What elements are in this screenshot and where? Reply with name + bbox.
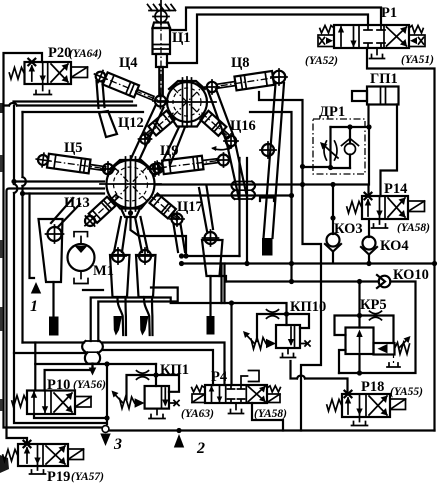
link from C4 pivot down to arm lever bbox=[97, 81, 105, 108]
svg-text:P19: P19 bbox=[47, 469, 70, 483]
C9 anchor pivot bbox=[152, 162, 163, 173]
P19 right box crossed arrows bbox=[46, 446, 65, 464]
wire P1 top wire W2 bbox=[167, 15, 368, 64]
swivel stem with flow arrow bbox=[91, 364, 93, 371]
lower head vertical lines bbox=[126, 156, 136, 212]
P10 right box crossed arrows bbox=[54, 393, 72, 412]
wire P4 riser x=231.5 with KP10 feed bbox=[230, 303, 232, 385]
P1 right box crossed arrows bbox=[387, 27, 407, 46]
KP1 internal down arrow bbox=[164, 388, 166, 405]
wire swivel riser A to KP10/P4 feed bbox=[91, 298, 232, 342]
left leg stem bbox=[52, 282, 54, 317]
P10 left box flow arrows bbox=[34, 392, 45, 413]
P14 right box crossed arrows bbox=[388, 198, 405, 217]
node (302.5,184.5) bbox=[300, 182, 305, 187]
C5 rod bbox=[89, 164, 105, 170]
KR5 spring bbox=[395, 343, 410, 355]
P19 blocked port X bbox=[24, 441, 31, 448]
rail y=184.5 (swivel to KO3/P14 riser) bbox=[155, 185, 369, 197]
valve P4 body bbox=[205, 385, 267, 403]
KP1 pilot triangle bbox=[135, 398, 145, 407]
knife bar right-upper (filled) bbox=[262, 238, 273, 256]
C9 rod bbox=[202, 159, 218, 165]
P18 blocked port X bbox=[345, 391, 352, 398]
upper head cap bbox=[169, 81, 205, 89]
C1 rod head bbox=[156, 54, 167, 67]
DR1 dash-dot enclosure bbox=[313, 119, 365, 174]
pivot on right leg bbox=[205, 232, 217, 244]
arrow 1 (filled triangle up) bbox=[31, 282, 41, 294]
wire KP10 feed y=303 bbox=[232, 303, 287, 314]
valve P10 body bbox=[27, 391, 75, 415]
rail bottom y=430.5 bbox=[105, 429, 435, 431]
P18 tank bbox=[352, 417, 368, 426]
P14 left box flow lines bbox=[368, 196, 380, 219]
KP10 right loop bbox=[287, 314, 310, 328]
node (286.5,314) bbox=[284, 311, 289, 316]
svg-text:Ц9: Ц9 bbox=[160, 143, 179, 159]
lower head chin block bbox=[121, 209, 140, 218]
C8 anchor pivot bbox=[273, 71, 286, 84]
KO4 stem bottom bbox=[368, 255, 370, 264]
upper head vertical lines bbox=[183, 77, 192, 127]
KO10 ball bbox=[379, 276, 391, 288]
P18 right box crossed arrows bbox=[369, 396, 387, 415]
svg-text:(YA55): (YA55) bbox=[390, 386, 423, 398]
wire right border x=434.5 from P1 to bottom rail bbox=[367, 48, 435, 431]
DR1 throttle arcs bbox=[324, 141, 337, 160]
node (369,263.5) bbox=[366, 261, 371, 266]
wire KR5 main riser bbox=[358, 282, 360, 374]
wire KP1 feed line y=364 bbox=[35, 363, 156, 365]
C16 axis bbox=[202, 113, 231, 139]
node (302.5,166.5) bbox=[300, 164, 305, 169]
C17 barrel bbox=[150, 194, 176, 219]
rail y=256 from lower head bbox=[182, 255, 240, 257]
node (359.5,373) bbox=[357, 370, 362, 375]
node (181.5,256) bbox=[179, 253, 184, 258]
KP10 adjust arrow bbox=[245, 334, 254, 344]
right leg of upper head bbox=[264, 83, 285, 238]
C4 axis bbox=[98, 75, 158, 100]
P4 top tank (inverted) bbox=[241, 371, 259, 386]
rail y=353 into swivel bbox=[14, 352, 86, 354]
node (291.5,263.5) bbox=[289, 261, 294, 266]
C1 dash-dot axis bbox=[160, 20, 162, 99]
KR5 right extension box bbox=[374, 343, 395, 355]
svg-text:(YA64): (YA64) bbox=[69, 48, 102, 60]
KP10 right stub with closed x bbox=[300, 341, 310, 346]
P10 solenoid bbox=[75, 397, 91, 408]
upper head horizontal centerline bbox=[158, 101, 216, 103]
svg-text:(YA52): (YA52) bbox=[305, 55, 338, 67]
M1 flow triangle bbox=[75, 246, 88, 253]
wire P10 bottom port to riser bbox=[34, 414, 107, 418]
node (181.5,263.5) bbox=[179, 261, 184, 266]
node x=291.5 on rail y=195.5 bbox=[289, 193, 294, 198]
svg-text:P4: P4 bbox=[211, 369, 227, 385]
KO4 ball bbox=[363, 237, 376, 250]
svg-text:КП1: КП1 bbox=[160, 362, 189, 378]
svg-text:(YA51): (YA51) bbox=[401, 54, 434, 66]
lower head inner dashed circle bbox=[114, 167, 148, 201]
KO3 ball bbox=[327, 234, 340, 247]
rail y=342 below mechanism feeding P4 left port bbox=[23, 343, 225, 386]
svg-text:Ц16: Ц16 bbox=[230, 118, 256, 134]
KP10 feed from node into box bbox=[285, 314, 287, 325]
C8 barrel bbox=[234, 71, 274, 90]
wire stub rail y=281.5 up to right leg bbox=[220, 276, 227, 282]
wire P10/KP1 riser x=107 down to junction bbox=[106, 364, 108, 424]
P20 solenoid bbox=[71, 67, 88, 78]
P4 bottom tank bbox=[229, 403, 244, 414]
wire y=167 from node to DR1 bbox=[303, 166, 331, 168]
KR5 restrictor flags bbox=[370, 311, 382, 320]
KR5 lower left stub to rail bbox=[339, 350, 346, 373]
node (333,218) bbox=[330, 215, 335, 220]
KR5 pilot triangle bbox=[378, 344, 388, 353]
C17 rod bbox=[171, 212, 179, 220]
arm lever below frame lines bbox=[99, 111, 117, 137]
arm C16 pivot to swivel top bbox=[227, 142, 247, 199]
C13 barrel bbox=[89, 197, 116, 223]
M1 circle bbox=[68, 244, 95, 271]
KP1 main box bbox=[145, 386, 169, 409]
P20 left box flow lines bbox=[32, 62, 43, 84]
node (434.5,263.5) bbox=[432, 261, 437, 266]
KP10 restrictor flags bbox=[267, 310, 279, 319]
svg-text:Ц17: Ц17 bbox=[177, 199, 203, 215]
P4 right spring bbox=[267, 386, 280, 392]
C13 rod bbox=[110, 195, 118, 203]
P20 spring bbox=[9, 68, 24, 80]
wire left outer border (from P20 to bottom junction) bbox=[4, 53, 106, 428]
wire KO3 riser x=333 from rail y=184.5 down to node y=218 bbox=[332, 185, 334, 219]
C4 rod bbox=[136, 90, 154, 101]
P1 tank bbox=[370, 48, 385, 59]
pivot left (C1/C4 rod) bbox=[155, 96, 166, 107]
wire P1 top wire W1 bbox=[170, 8, 381, 31]
C8 axis bbox=[214, 77, 281, 87]
rail y=195.5 (swivel to x=291.5) bbox=[156, 194, 292, 196]
svg-text:КП10: КП10 bbox=[290, 299, 326, 315]
svg-text:2: 2 bbox=[196, 440, 205, 457]
C12 rod bbox=[144, 129, 153, 138]
P4 left box arrows bbox=[212, 387, 220, 402]
C9 rod pivot bbox=[218, 155, 229, 166]
C5 axis bbox=[41, 160, 120, 171]
wire GP1 right leg to P14 bbox=[381, 105, 398, 197]
svg-text:Ц4: Ц4 bbox=[119, 55, 138, 71]
upper head chin bbox=[170, 116, 204, 127]
P4 left spring bbox=[192, 386, 205, 392]
C12 pivot bbox=[140, 134, 150, 144]
svg-text:P14: P14 bbox=[384, 181, 407, 197]
KO3 stem bottom bbox=[332, 252, 334, 264]
KO3 stem top bbox=[332, 218, 334, 234]
arm C13 pivot to left leg pivot bbox=[51, 198, 80, 227]
C16 rod bbox=[221, 130, 230, 139]
wire top-left double horizontals y=101.5,105.5 bbox=[4, 102, 137, 106]
wire jump on drain rail over x=301 bbox=[297, 376, 305, 379]
svg-text:КР5: КР5 bbox=[360, 297, 387, 313]
arrow 2 (filled triangle up) bbox=[174, 434, 184, 448]
svg-text:(YA57): (YA57) bbox=[71, 471, 104, 483]
P4 right box crossed arrows bbox=[248, 387, 265, 402]
upper head inner dashed circle bbox=[173, 88, 201, 116]
wire P10 left riser x=35.3 up to rail y=342 bbox=[34, 343, 36, 391]
KR5 dashed drain bbox=[393, 354, 395, 363]
arm chin to right center leg bbox=[135, 217, 148, 252]
KP1 adjust arrow bbox=[114, 393, 123, 403]
svg-text:Ц5: Ц5 bbox=[64, 140, 83, 156]
valve P14 body bbox=[362, 196, 408, 219]
node x=22.5 on rail y=193.5 bbox=[20, 191, 25, 196]
DR1 throttle adjust arrow bbox=[323, 145, 338, 159]
arm chin to left center leg bbox=[114, 217, 127, 252]
knife bar left (filled) bbox=[49, 317, 59, 336]
KP10 pilot loop left with restrictor flags bbox=[257, 314, 287, 341]
rail y=181.5 to lower head bbox=[14, 180, 104, 182]
KR5 main box bbox=[346, 328, 374, 355]
KO3 seat bbox=[325, 244, 341, 252]
upper head circle bbox=[167, 82, 207, 122]
node (291.5,281.5) bbox=[289, 279, 294, 284]
valve P1 body bbox=[334, 25, 409, 48]
C12 axis bbox=[144, 113, 174, 138]
P19 solenoid bbox=[68, 449, 84, 460]
rotation indicator above C9 rod bbox=[213, 148, 231, 150]
KP1 tank bbox=[149, 409, 165, 419]
pivot right on lower head bbox=[150, 164, 160, 174]
wire stub left shank bbox=[83, 289, 103, 291]
knife shank left (curved pair) bbox=[117, 297, 126, 335]
P1 left box arrows bbox=[341, 27, 354, 46]
pivot on left leg bbox=[48, 227, 62, 241]
C16 pivot bbox=[226, 136, 236, 146]
KO4 stem top bbox=[368, 219, 370, 237]
svg-text:Ц12: Ц12 bbox=[118, 115, 144, 131]
arm upper-right (pivot 212,87 to C16 pivot) bbox=[208, 89, 235, 144]
valve P19 body bbox=[18, 444, 68, 466]
wire GP1 left leg down to DR1 node bbox=[367, 105, 369, 128]
svg-text:Ц8: Ц8 bbox=[231, 55, 250, 71]
C9 barrel bbox=[162, 156, 203, 174]
svg-text:(YA63): (YA63) bbox=[181, 408, 214, 420]
ground anchor bbox=[149, 0, 174, 11]
C1 barrel bbox=[153, 28, 171, 54]
wire x=302.5 riser jog down to bottom rail bbox=[301, 167, 321, 431]
pivot right center leg bbox=[139, 250, 151, 262]
KP1 feed corner into box bbox=[155, 364, 157, 386]
svg-text:КО3: КО3 bbox=[334, 221, 363, 237]
wire jump on x=22.5 over rail y=181.5 bbox=[23, 177, 26, 186]
svg-text:(YA58): (YA58) bbox=[397, 222, 430, 234]
lower head cap bbox=[110, 160, 151, 169]
GP1 body bbox=[367, 87, 399, 105]
C1 rod bbox=[159, 67, 163, 96]
svg-text:1: 1 bbox=[30, 298, 38, 315]
C16 barrel bbox=[200, 111, 226, 136]
swivel (rotary union) lower-left bbox=[82, 341, 103, 364]
C4 anchor pivot bbox=[94, 70, 107, 83]
P1 right solenoid bbox=[409, 35, 425, 47]
KP1 pilot loop left with flags bbox=[127, 375, 157, 399]
wire swivel riser B bbox=[98, 288, 177, 342]
wire y=112 right segment to x=291.5 bbox=[250, 112, 292, 282]
node (179,430.5) for arrow 2 bbox=[176, 428, 181, 433]
C13 axis bbox=[89, 195, 118, 222]
C13 anchor pivot bbox=[83, 214, 97, 228]
svg-text:Ц1: Ц1 bbox=[172, 30, 191, 46]
node (231.5,303) bbox=[229, 300, 234, 305]
center leg left (trapezoid) bbox=[110, 255, 130, 297]
node on chin bbox=[128, 210, 133, 215]
pivot top-right bbox=[207, 82, 217, 92]
node (186,256) bbox=[183, 253, 188, 258]
drain rail y=378.5 from KP10 tank to P18 bbox=[291, 361, 348, 394]
right leg of lower mech bbox=[202, 240, 223, 276]
M1 shaft up with bracket bbox=[74, 232, 88, 244]
wire from lower head chin down to rail y=256 bbox=[131, 214, 187, 256]
P20 blocked port X bbox=[28, 59, 35, 66]
wire swivel stem to P10 right port bbox=[45, 367, 93, 391]
junction circle at (105.5,428.5) bbox=[102, 426, 109, 433]
KP10 main box bbox=[276, 325, 300, 348]
node (350,127) bbox=[347, 124, 352, 129]
valve P18 body bbox=[342, 394, 390, 417]
GP1 side block bbox=[352, 91, 367, 101]
KP10 spring bbox=[251, 338, 266, 350]
P19 spring bbox=[3, 450, 18, 462]
wire jump on y=105.5 over x=14 bbox=[9, 103, 17, 106]
rail y=263.5 from lower head to right border bbox=[182, 262, 435, 264]
C17 pivot bbox=[172, 214, 183, 225]
KR5 drain tank bbox=[387, 363, 400, 367]
svg-text:P1: P1 bbox=[381, 5, 397, 21]
node (359.5,315.5) bbox=[357, 313, 362, 318]
DR1 check valve bbox=[345, 144, 356, 155]
C1 cap trapezoid bbox=[153, 23, 171, 29]
DR1 inner circuit bbox=[331, 127, 351, 168]
P18 left box flow lines bbox=[348, 394, 360, 417]
lower head horizontal centerline bbox=[100, 183, 161, 185]
rail y=350 from swivel feeding P4 bbox=[103, 350, 213, 385]
lower head dash-dot diagonals bbox=[114, 167, 147, 201]
upper head dash-dot diagonals bbox=[173, 88, 201, 116]
node (107,364) bbox=[104, 361, 109, 366]
P14 tank bbox=[372, 219, 388, 228]
rail y=193.5 to lower head bbox=[23, 192, 105, 194]
P20 tank bbox=[34, 84, 51, 95]
wire y=112 left segment (frame top) bbox=[23, 111, 144, 113]
P10 spring bbox=[12, 396, 27, 408]
wire left inner vertical x=14 bbox=[14, 106, 105, 424]
right leg stem bbox=[209, 276, 211, 316]
lower head circle bbox=[107, 160, 155, 208]
wire to arrow 1 bbox=[30, 194, 35, 279]
arm down to right leg pivot bbox=[199, 186, 213, 231]
pivot on right leg bbox=[262, 144, 274, 156]
wire frame x=22.5 from y=112 down to rail y=342.5 bbox=[21, 112, 23, 343]
wire KO10 out to KR5 enclosure right edge bbox=[339, 282, 416, 374]
C12 barrel bbox=[148, 111, 174, 136]
arm C17 pivot down to rail node bbox=[174, 224, 186, 252]
arms from upper chin to C9 pivot bbox=[162, 127, 185, 165]
KR5 left pilot loop bbox=[335, 316, 360, 336]
arrow 3 (filled triangle down) bbox=[100, 434, 110, 447]
P18 solenoid bbox=[390, 399, 406, 410]
svg-text:P18: P18 bbox=[361, 379, 384, 395]
KP1 spring bbox=[120, 397, 135, 409]
P14 solenoid bbox=[408, 201, 425, 212]
knife shank right (curved pair) bbox=[144, 297, 153, 335]
P4 middle box blocked ports bbox=[228, 385, 245, 389]
C4 barrel bbox=[103, 72, 139, 97]
P4 right bottom stub to rail bbox=[252, 403, 283, 431]
P1 left solenoid bbox=[318, 35, 334, 47]
C17 axis bbox=[150, 196, 178, 219]
left leg of lower mech bbox=[39, 219, 63, 282]
KR5 internal up arrow bbox=[359, 333, 361, 352]
svg-text:(YA58): (YA58) bbox=[254, 408, 287, 420]
P19 tank bbox=[30, 466, 46, 474]
bracket between swivel legs bbox=[260, 198, 274, 202]
knife blade left (filled) bbox=[114, 316, 123, 336]
node (156,375) bbox=[153, 372, 158, 377]
KR5 adjust arrow bbox=[399, 339, 408, 349]
node x=14 on rail y=181.5 bbox=[11, 179, 16, 184]
rail y=188.5 to lower head, curving down at x=6.5 to feed P19 bbox=[7, 189, 105, 445]
KP1 right loop bbox=[156, 375, 179, 392]
node (247,263.5) bbox=[244, 261, 249, 266]
node (369,127) bbox=[366, 124, 371, 129]
P18 spring bbox=[327, 400, 342, 412]
wire swivel pair x=239.5,247 bbox=[240, 158, 248, 264]
KP10 tank bbox=[281, 348, 296, 358]
knife blade right (filled) bbox=[140, 316, 149, 336]
P1 middle box blocked ports bbox=[364, 25, 385, 30]
wire y=100 from cylinder port to x=302.5 riser bbox=[259, 92, 303, 167]
pivot left center leg bbox=[112, 250, 124, 262]
KR5 pilot branch with restrictor flags bbox=[360, 316, 394, 344]
arm upper-left (C1 pivot to lower head) bbox=[131, 106, 164, 161]
svg-text:(YA56): (YA56) bbox=[73, 379, 106, 391]
KP1 restrictor flags bbox=[137, 371, 149, 380]
KO10 seat bbox=[377, 275, 385, 288]
KP10 internal down arrow bbox=[290, 327, 292, 344]
pivot left on lower head bbox=[103, 164, 113, 174]
lower head chin bbox=[113, 200, 148, 209]
M1 drain with bracket bbox=[74, 271, 88, 284]
KP1 right stub with closed x bbox=[169, 401, 179, 406]
P4 left solenoid bbox=[192, 394, 205, 403]
svg-text:P20: P20 bbox=[48, 45, 71, 61]
wire jump on x=14 over rail y=188.5 bbox=[14, 184, 17, 193]
P1 left spring bbox=[320, 26, 334, 34]
svg-text:ДР1: ДР1 bbox=[319, 104, 345, 120]
P1 right spring bbox=[409, 26, 423, 34]
svg-text:ГП1: ГП1 bbox=[370, 71, 398, 87]
svg-text:P10: P10 bbox=[47, 377, 70, 393]
valve P20 body bbox=[25, 62, 72, 84]
svg-text:3: 3 bbox=[113, 436, 122, 453]
P20 right box crossed arrows bbox=[51, 64, 68, 82]
DR1 riser exit down bbox=[368, 127, 370, 185]
P19 left box flow lines bbox=[27, 444, 38, 466]
P14 blocked port X bbox=[365, 193, 372, 200]
knife bar right (filled) bbox=[207, 316, 215, 335]
